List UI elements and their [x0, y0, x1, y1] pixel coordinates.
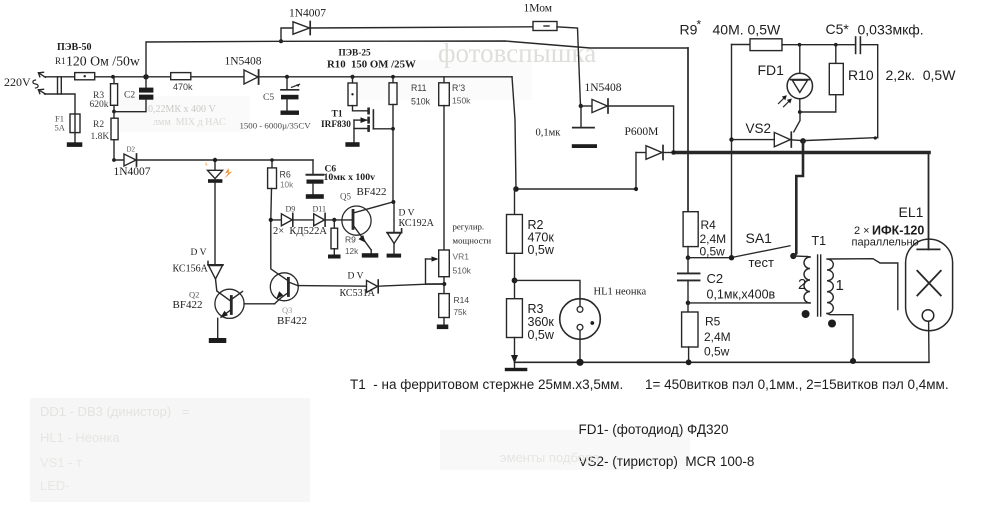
wire bottom bus — [515, 361, 930, 363]
resistor R3 620k — [111, 77, 118, 112]
svg-text:D11: D11 — [313, 205, 326, 214]
svg-text:220V: 220V — [4, 75, 31, 89]
svg-text:T1: T1 — [812, 234, 827, 248]
svg-text:510k: 510k — [411, 97, 431, 107]
resistor R2 470k 0.5w — [507, 189, 523, 299]
transistor Q2 BF422 — [209, 289, 275, 343]
svg-text:D V: D V — [348, 272, 364, 282]
svg-text:регулир.: регулир. — [453, 222, 485, 232]
wire D9/D11 row y=220 — [271, 219, 335, 221]
svg-text:C5: C5 — [263, 93, 274, 103]
node junction C2-top — [143, 74, 148, 79]
resistor R10 2,2k — [800, 45, 844, 112]
flash lamp EL1 — [906, 153, 953, 363]
node junction 1N4007 anode — [279, 39, 283, 43]
node junction LED top — [213, 158, 217, 162]
svg-text:LED-: LED- — [40, 478, 70, 493]
diode KC531A — [298, 280, 444, 293]
svg-text:1N4007: 1N4007 — [114, 166, 151, 178]
svg-text:лмм МIХ д НАС: лмм МIХ д НАС — [153, 117, 226, 128]
svg-text:R11: R11 — [411, 83, 427, 93]
resistor R14 75k — [437, 294, 450, 330]
svg-text:R10: R10 — [848, 67, 874, 83]
resistor 1Mom — [533, 22, 581, 107]
wire R4 to SA1 — [688, 257, 732, 259]
svg-text:Q2: Q2 — [189, 290, 199, 300]
svg-text:R10 150 ОМ /25W: R10 150 ОМ /25W — [327, 59, 416, 71]
wire y=160 row — [114, 159, 313, 161]
svg-text:HL1 неонка: HL1 неонка — [594, 287, 647, 298]
svg-text:0,22МК х 400 V: 0,22МК х 400 V — [148, 104, 217, 115]
diode 1N5408 small — [581, 99, 674, 153]
node junction gate — [391, 127, 395, 131]
svg-text:FD1: FD1 — [758, 62, 785, 78]
resistor R10 ПЭВ-25 150 Ом — [348, 77, 357, 106]
transistor Q5 BF422 — [334, 202, 392, 257]
capacitor mains twin-line (plug) — [58, 77, 62, 94]
capacitor 0,1мк — [572, 106, 597, 148]
node junction HL1 bottom — [576, 359, 583, 366]
svg-text:T1: T1 — [332, 110, 343, 120]
resistor 470k — [171, 73, 191, 80]
resistor R1 (ПЭВ-50 120 Ом) — [75, 73, 95, 80]
svg-text:150k: 150k — [452, 96, 471, 106]
svg-text:1N5408: 1N5408 — [225, 56, 262, 68]
svg-text:ПЭВ-25: ПЭВ-25 — [339, 49, 371, 59]
svg-text:BF422: BF422 — [277, 315, 307, 327]
svg-text:2,2к. 0,5W: 2,2к. 0,5W — [886, 67, 957, 83]
svg-text:VR1: VR1 — [453, 252, 470, 262]
node junction 1Mom / 0.1uF / 1N5408 — [579, 104, 583, 108]
svg-text:12k: 12k — [345, 247, 359, 256]
spark icon orange — [205, 162, 233, 179]
node junction R11 top — [391, 75, 395, 79]
neon lamp HL1 — [515, 280, 601, 362]
wire rail corner down to R2 chain — [512, 77, 516, 189]
potentiometer VR1 510k — [426, 250, 450, 294]
wire main top rail y=77 — [45, 76, 513, 78]
diode D2 1N4007 — [124, 154, 137, 166]
svg-text:R5: R5 — [705, 315, 721, 329]
node junction T1 secondary to bus — [850, 358, 856, 364]
svg-text:R6: R6 — [280, 170, 291, 180]
svg-text:1= 450витков пэл 0,1мм., 2=15в: 1= 450витков пэл 0,1мм., 2=15витков пэл … — [645, 377, 949, 392]
zener KC156A — [208, 261, 230, 300]
svg-text:75k: 75k — [454, 308, 468, 317]
capacitor C5* 0,033мкф — [804, 37, 878, 141]
svg-text:2: 2 — [798, 276, 806, 293]
wire C2 junction to T1 primary bottom — [688, 302, 810, 304]
svg-text:EL1: EL1 — [899, 204, 924, 220]
svg-text:FD1- (фотодиод) ФД320: FD1- (фотодиод) ФД320 — [579, 422, 729, 437]
svg-text:120 Ом /50w: 120 Ом /50w — [66, 54, 140, 69]
svg-text:D2: D2 — [127, 146, 136, 154]
svg-text:5А: 5А — [55, 123, 66, 133]
resistor R5 2.4M — [682, 303, 698, 362]
svg-text:1.8K: 1.8K — [91, 132, 110, 142]
resistor R2 1.8K — [111, 112, 118, 160]
svg-text:C2: C2 — [707, 271, 724, 286]
svg-text:мощности: мощности — [453, 236, 492, 246]
svg-text:VS2: VS2 — [746, 121, 772, 136]
svg-text:*: * — [697, 18, 702, 32]
node junction FD1 top — [798, 43, 802, 47]
resistor R4 2.4M — [683, 212, 698, 258]
resistor R3 360k 0.5w — [507, 299, 523, 368]
node junction R3-top — [111, 75, 115, 79]
svg-text:Т1 - на ферритовом стержне 25: Т1 - на ферритовом стержне 25мм.х3,5мм. — [350, 377, 623, 392]
node junction C2/R5/T1 — [686, 301, 691, 306]
node junction R4/C2/SA1 — [686, 255, 691, 260]
wire thick VS2 cathode down to T1 — [794, 141, 803, 256]
svg-text:Q5: Q5 — [340, 192, 351, 202]
svg-text:2 ×: 2 × — [854, 225, 870, 237]
node junction C5-elcap top — [285, 75, 289, 79]
diode D11 KD522A — [314, 213, 325, 226]
node junction SA1 left — [729, 255, 734, 260]
node junction VS2 cathode — [800, 138, 806, 144]
svg-text:1N5408: 1N5408 — [585, 82, 622, 94]
diode 1N5408 main — [244, 70, 259, 84]
svg-text:10k: 10k — [280, 181, 294, 190]
svg-text:0,5w: 0,5w — [700, 245, 726, 259]
svg-text:1: 1 — [836, 277, 844, 294]
node 220V AC input terminals — [33, 72, 46, 94]
svg-text:C5*: C5* — [826, 21, 850, 37]
wire second top line y=41 — [146, 41, 688, 77]
svg-text:КС192А: КС192А — [399, 218, 435, 229]
fuse F1 — [67, 114, 83, 147]
node junction Q5 base / R9 — [332, 218, 336, 222]
ground arrow at R3 bottom — [505, 355, 528, 371]
svg-text:R’3: R’3 — [452, 83, 465, 93]
transistor Q3 BF422 — [270, 220, 298, 304]
svg-text:0,5w: 0,5w — [528, 243, 555, 257]
node junction R5 bottom — [686, 359, 692, 365]
svg-text:VS2- (тиристор) MCR 100-8: VS2- (тиристор) MCR 100-8 — [579, 454, 755, 469]
svg-text:P600M: P600M — [625, 126, 659, 138]
ghost smudge background blocks — [30, 60, 690, 502]
resistor R6 10k — [268, 160, 277, 220]
svg-text:470k: 470k — [173, 82, 193, 92]
svg-text:IRF830: IRF830 — [321, 120, 351, 130]
svg-text:1N4007: 1N4007 — [289, 8, 326, 20]
wire vertical feed to R4 — [687, 48, 689, 212]
node junction Q5 collector — [391, 200, 395, 204]
node junction VR1/R14 — [442, 282, 446, 286]
svg-text:510k: 510k — [453, 266, 472, 276]
node junction VS2 anode — [729, 137, 733, 141]
svg-text:ИФК-120: ИФК-120 — [872, 224, 924, 238]
wire thick HV bus y=152.5 — [674, 151, 929, 155]
svg-text:R3: R3 — [528, 302, 544, 316]
svg-text:10мк x 100v: 10мк x 100v — [324, 172, 376, 183]
svg-text:0,5w: 0,5w — [528, 328, 555, 342]
svg-text:0,5w: 0,5w — [704, 345, 730, 359]
svg-text:HL1 - Неонка: HL1 - Неонка — [40, 430, 120, 445]
svg-text:2× КД522А: 2× КД522А — [273, 226, 327, 237]
node junction D2-anode — [112, 158, 116, 162]
svg-text:Q3: Q3 — [282, 305, 292, 315]
wire lower mains lead — [45, 94, 76, 114]
node junction R2 chain top — [513, 186, 519, 192]
svg-text:R1: R1 — [55, 56, 66, 66]
node junction D9 anode — [269, 218, 273, 222]
svg-text:тест: тест — [749, 255, 775, 270]
resistor R11 510k — [389, 77, 397, 202]
capacitor C6 10uF — [306, 160, 324, 199]
svg-text:620k: 620k — [90, 100, 109, 110]
svg-text:0,033мкф.: 0,033мкф. — [858, 22, 924, 38]
diode 1N4007 top — [281, 22, 533, 42]
node junction 1N5408/P600M bus — [671, 150, 676, 155]
capacitor C2 0,1мк x400в — [678, 258, 700, 303]
node junction R10 top — [834, 43, 838, 47]
photodiode FD1 — [779, 45, 813, 112]
svg-text:SA1: SA1 — [746, 230, 773, 246]
svg-text:эменты подбора: эменты подбора — [500, 450, 600, 465]
resistor R9 12k — [328, 220, 341, 259]
svg-text:параллельно: параллельно — [852, 237, 919, 249]
node junction P600M anode corner — [634, 187, 638, 191]
svg-text:ПЭВ-50: ПЭВ-50 — [57, 42, 92, 53]
svg-text:R4: R4 — [701, 218, 717, 232]
svg-text:0,1мк: 0,1мк — [536, 128, 562, 139]
transistor T1 IRF830 MOSFET — [345, 106, 393, 147]
svg-text:1Мом: 1Мом — [524, 3, 553, 15]
svg-text:R9: R9 — [345, 235, 356, 245]
switch SA1 тест — [733, 246, 807, 259]
node junction R2/R3 HL1 tap — [512, 278, 518, 284]
resistor R9* 40M — [732, 39, 855, 51]
zener KC192A — [387, 202, 402, 258]
svg-text:R2: R2 — [93, 120, 104, 130]
capacitor C5 electrolytic 1500-6000u — [281, 77, 300, 115]
svg-text:R9: R9 — [680, 22, 698, 38]
node junction R6 top — [270, 158, 274, 162]
svg-text:BF422: BF422 — [173, 299, 203, 311]
svg-text:КС156А: КС156А — [173, 263, 209, 274]
svg-text:2,4М: 2,4М — [704, 330, 731, 344]
svg-text:D9: D9 — [286, 205, 296, 214]
svg-text:1500 - 6000µ/35CV: 1500 - 6000µ/35CV — [240, 121, 312, 131]
diode D9 KD522A — [281, 213, 292, 226]
transformer T1 — [688, 255, 898, 361]
node junction R3/R2/C2-bottom — [112, 110, 116, 114]
svg-text:0,1мк,х400в: 0,1мк,х400в — [707, 288, 776, 302]
svg-text:VS1 - т: VS1 - т — [40, 455, 82, 470]
node junction R10-PEV top — [350, 75, 354, 79]
capacitor C2 mains — [114, 77, 153, 112]
svg-text:BF422: BF422 — [357, 186, 387, 198]
wire vertical R9*-VS2-SA1 — [731, 45, 733, 258]
svg-text:КС531А: КС531А — [340, 288, 376, 299]
svg-text:D V: D V — [191, 248, 207, 258]
node junction FD1 anode / R10 bottom — [798, 110, 802, 114]
LED indicator — [208, 160, 223, 265]
svg-text:C2: C2 — [124, 91, 135, 101]
svg-text:40M. 0,5W: 40M. 0,5W — [713, 22, 781, 38]
thyristor VS2 — [732, 112, 804, 147]
svg-text:R14: R14 — [454, 295, 470, 305]
diode P600M — [516, 146, 674, 190]
svg-text:DD1 - DB3 (динистор) =: DD1 - DB3 (динистор) = — [40, 404, 190, 419]
resistor R'3 150k — [439, 77, 450, 250]
